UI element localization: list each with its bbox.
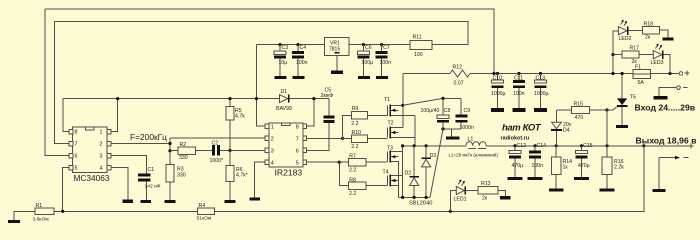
- transistor T3: [387, 152, 389, 162]
- svg-text:R18: R18: [644, 21, 654, 27]
- ground for R13: [500, 196, 511, 199]
- svg-text:1000*: 1000*: [210, 158, 224, 164]
- svg-text:7815: 7815: [329, 47, 340, 53]
- wire MC34063 pin1 to 15V rail: [111, 99, 118, 132]
- wire VR1 ground pin: [336, 56, 338, 71]
- LED LED3: [653, 51, 662, 59]
- wire source bus: [414, 115, 416, 146]
- resistor R3: [166, 165, 174, 183]
- wire node to IR2183 pin3: [230, 150, 265, 152]
- svg-text:R11: R11: [413, 35, 422, 41]
- resistor R7: [348, 159, 366, 166]
- svg-text:2к: 2к: [482, 195, 488, 201]
- wire R13 to ground: [498, 191, 505, 197]
- thyristor T5: [617, 98, 627, 105]
- svg-text:142 нФ: 142 нФ: [145, 183, 161, 189]
- svg-text:T5: T5: [630, 95, 636, 101]
- wire junction up to R9: [343, 115, 352, 138]
- svg-text:470µ: 470µ: [578, 163, 590, 169]
- LED LED2: [618, 27, 627, 35]
- svg-text:R8: R8: [349, 177, 356, 183]
- svg-text:C11: C11: [514, 75, 523, 81]
- node LO junction: [338, 161, 341, 164]
- node phase-D2: [413, 144, 416, 147]
- svg-text:1: 1: [271, 124, 274, 130]
- svg-text:T1: T1: [384, 97, 390, 103]
- output plus mark: [689, 145, 694, 147]
- ground for R1: [8, 220, 20, 223]
- node top-wire junction: [492, 72, 495, 75]
- svg-text:LED3: LED3: [651, 60, 664, 66]
- capacitor C14: [533, 144, 536, 147]
- node R5-rail: [228, 97, 231, 100]
- wire 15V rail: [63, 98, 329, 100]
- svg-text:100µ: 100µ: [362, 60, 374, 66]
- svg-text:radiokot.ru: radiokot.ru: [501, 136, 530, 142]
- wire C2 to node: [220, 150, 230, 152]
- ground for C14: [528, 177, 543, 180]
- resistor R18: [643, 27, 660, 34]
- wire R18 to ground: [659, 30, 668, 37]
- wire LED3 to rail: [663, 55, 670, 74]
- transistor T2: [387, 128, 389, 138]
- wire R6 to ground: [229, 182, 231, 200]
- ground for R3: [165, 200, 176, 203]
- wire R1 to R4: [54, 210, 198, 212]
- svg-text:1000n: 1000n: [460, 125, 475, 131]
- svg-text:Выход 18,96 в: Выход 18,96 в: [636, 136, 697, 146]
- svg-text:L1=28 мкГн (алюминий): L1=28 мкГн (алюминий): [449, 151, 499, 157]
- wire MC34063 pin2 to R2/R3 node: [111, 143, 170, 145]
- diode D2 (SBL2040 half): [413, 146, 415, 176]
- ground for R16: [600, 189, 615, 192]
- wire T2 drain: [391, 127, 403, 129]
- wire node down to rail: [606, 110, 608, 146]
- svg-text:C14: C14: [537, 143, 547, 149]
- wire R4 to output rail: [215, 146, 644, 212]
- wire rail to C5: [328, 99, 330, 116]
- wire diode anode rail: [399, 196, 430, 198]
- capacitor C8: [442, 98, 444, 115]
- inductor L1: [466, 142, 486, 146]
- svg-text:10µ: 10µ: [279, 60, 288, 66]
- wire MC34063 pin8 to 15V rail: [63, 99, 69, 132]
- svg-text:8: 8: [75, 130, 78, 136]
- resistor R8: [348, 182, 366, 189]
- svg-text:2к: 2к: [645, 35, 651, 41]
- svg-text:D2: D2: [405, 171, 412, 177]
- IC U1 pin stubs: [69, 129, 73, 134]
- svg-text:100n: 100n: [513, 91, 525, 97]
- svg-text:470µ: 470µ: [512, 163, 524, 169]
- wire C8/C9 bottom node: [443, 128, 461, 130]
- svg-text:C4: C4: [300, 45, 307, 51]
- capacitor C1: [138, 173, 150, 176]
- svg-text:LED1: LED1: [454, 197, 467, 203]
- svg-text:3,6кОм: 3,6кОм: [33, 217, 50, 223]
- svg-text:C13: C13: [536, 75, 546, 81]
- node C8 bottom: [441, 127, 444, 130]
- input plus terminal: [679, 72, 683, 76]
- svg-text:5: 5: [75, 166, 78, 172]
- resistor R2: [178, 147, 195, 154]
- node junction pin1-rail: [116, 97, 119, 100]
- resistor R17: [622, 51, 639, 58]
- svg-text:R4: R4: [199, 203, 206, 209]
- IC U2 pin stubs: [265, 124, 269, 129]
- wire R2/R3 junction verticals: [169, 138, 171, 164]
- svg-text:0.07: 0.07: [454, 80, 464, 86]
- wire phase rail: [403, 145, 467, 147]
- wire R17 row: [613, 54, 622, 56]
- svg-text:LED2: LED2: [619, 36, 632, 42]
- ground for C4: [293, 76, 305, 79]
- node T1 drain: [401, 104, 404, 107]
- capacitor C11: [517, 72, 520, 75]
- node LED3 tap: [668, 72, 671, 75]
- wire R15 to node: [589, 109, 607, 111]
- node D2 anode: [413, 196, 416, 199]
- svg-text:100µ/40: 100µ/40: [421, 108, 440, 114]
- capacitor C9: [460, 98, 462, 114]
- ground for R6: [225, 200, 236, 203]
- wire input bus down: [402, 74, 404, 128]
- svg-text:2: 2: [100, 142, 103, 148]
- svg-text:R13: R13: [481, 181, 491, 187]
- capacitor C3: [278, 43, 281, 46]
- svg-text:MC34063: MC34063: [74, 173, 110, 183]
- wire bootstrap node: [443, 97, 461, 99]
- resistor R4: [198, 208, 215, 215]
- svg-text:D4: D4: [563, 128, 570, 134]
- LED LED1: [456, 186, 464, 194]
- svg-text:C9: C9: [464, 108, 471, 114]
- node R17 tap: [611, 53, 614, 56]
- wire output rail: [486, 145, 689, 147]
- wire node to R6: [229, 151, 231, 166]
- wire VR1 rail: [257, 44, 325, 46]
- svg-text:100n: 100n: [380, 60, 392, 66]
- wire R9 to T1 gate: [368, 114, 388, 116]
- svg-text:R15: R15: [574, 101, 584, 107]
- svg-text:1000µ: 1000µ: [534, 91, 549, 97]
- wire IR2183 pin5 to junction: [307, 161, 340, 163]
- IC U2 IR2183 body: [269, 123, 303, 167]
- node VB junction: [312, 97, 315, 100]
- ground for input minus: [654, 96, 668, 99]
- svg-text:R1: R1: [36, 203, 43, 209]
- ground for output minus: [653, 189, 666, 192]
- capacitor C10: [496, 72, 499, 75]
- svg-text:T3: T3: [387, 146, 393, 152]
- node LED column rail: [611, 72, 614, 75]
- node HO junction: [341, 137, 344, 140]
- svg-text:4.7k: 4.7k: [235, 113, 245, 119]
- wire VR1 to 15V rail: [257, 45, 266, 126]
- svg-text:5: 5: [296, 160, 299, 166]
- svg-text:T2: T2: [388, 121, 394, 127]
- regulator VR1 7815 box: [325, 38, 350, 56]
- svg-text:330: 330: [177, 173, 186, 179]
- wire T3 source down: [391, 162, 399, 198]
- svg-text:BAV99: BAV99: [276, 106, 292, 112]
- wire LED1 anode: [450, 191, 456, 212]
- svg-text:C10: C10: [493, 75, 503, 81]
- svg-text:4: 4: [100, 166, 103, 172]
- svg-text:2.2: 2.2: [349, 191, 356, 197]
- svg-text:8: 8: [296, 124, 299, 130]
- wire input rail left: [403, 73, 450, 75]
- wire R5 to node: [229, 120, 231, 151]
- capacitor C12: [513, 144, 516, 147]
- svg-text:D3: D3: [430, 153, 437, 159]
- wire R3 to ground: [169, 182, 171, 200]
- node bootstrap: [441, 97, 444, 100]
- svg-text:VR1: VR1: [330, 40, 340, 46]
- wire top inner (R11 to MC34063 pin7): [55, 22, 469, 46]
- wire T4 drain bus to diode rail: [402, 176, 404, 198]
- resistor R5: [226, 107, 234, 120]
- wire R17 to LED3: [639, 54, 653, 56]
- ground for C13: [534, 108, 547, 112]
- resistor R10: [351, 135, 367, 142]
- svg-text:470: 470: [575, 115, 584, 121]
- svg-text:2мкФ: 2мкФ: [321, 93, 334, 99]
- svg-text:100: 100: [414, 52, 423, 58]
- svg-text:1: 1: [100, 130, 103, 136]
- wire R7 to T3 gate: [366, 161, 388, 163]
- svg-text:R17: R17: [630, 46, 640, 52]
- node phase-D3: [425, 144, 428, 147]
- wire F1 to plus terminal: [650, 73, 679, 75]
- wire LED2 to R18: [628, 30, 642, 32]
- ground for C1: [141, 200, 152, 203]
- svg-text:7: 7: [296, 136, 299, 142]
- ground for R14: [549, 189, 564, 192]
- capacitor C4: [296, 43, 299, 46]
- transistor T4: [387, 176, 389, 186]
- svg-text:3: 3: [100, 154, 103, 160]
- svg-text:C15: C15: [583, 143, 593, 149]
- wire junction down to R8: [339, 162, 348, 185]
- resistor R9: [351, 112, 367, 119]
- wire IR2183 pin8 to rail: [307, 99, 314, 126]
- zener diode D4: [555, 131, 557, 146]
- svg-text:C3: C3: [282, 45, 289, 51]
- svg-text:5A: 5A: [638, 80, 645, 86]
- resistor R6: [226, 166, 234, 182]
- wire C5 to IR2183 pin6: [307, 123, 330, 151]
- svg-text:1к: 1к: [563, 165, 569, 171]
- svg-text:6: 6: [75, 154, 78, 160]
- svg-text:3: 3: [271, 148, 274, 154]
- ground for C8/C9: [446, 136, 460, 139]
- svg-text:R7: R7: [349, 154, 356, 160]
- resistor R13: [478, 187, 498, 194]
- svg-text:D1: D1: [281, 89, 288, 95]
- ground for C7: [376, 76, 388, 79]
- svg-text:T4: T4: [383, 170, 389, 176]
- capacitor C5: [324, 115, 335, 118]
- input minus terminal: [677, 86, 681, 90]
- wire IR2183 pin7 to junction: [307, 137, 343, 139]
- wire R5 top: [229, 99, 231, 107]
- node feedback divider: [228, 149, 231, 152]
- svg-text:C8: C8: [444, 108, 451, 114]
- ground for C12: [508, 177, 523, 180]
- svg-text:C1: C1: [148, 167, 155, 173]
- wire MC34063 pin5 to bottom net: [63, 168, 69, 212]
- ground for C3: [275, 76, 287, 79]
- diode D3 (SBL2040 half): [425, 146, 427, 158]
- capacitor C7: [380, 43, 383, 46]
- node VR1-15V junction: [255, 97, 258, 100]
- svg-text:2.2: 2.2: [351, 121, 358, 127]
- wire input rail right: [470, 73, 633, 75]
- resistor R16: [605, 144, 608, 147]
- node pin2 junction: [168, 142, 171, 145]
- ground for IR2183 pin4: [249, 198, 260, 201]
- wire T1 drain to input bus: [391, 104, 403, 106]
- wire T4 drain: [391, 175, 403, 177]
- wire minus to ground: [658, 158, 660, 189]
- svg-text:IR2183: IR2183: [275, 167, 303, 177]
- svg-text:7: 7: [75, 142, 78, 148]
- svg-text:2: 2: [271, 136, 274, 142]
- wire T3 drain to phase bus: [391, 151, 403, 153]
- wire IR2183 pin4 to ground: [255, 162, 266, 197]
- svg-text:C7: C7: [383, 45, 390, 51]
- svg-text:R9: R9: [352, 106, 359, 112]
- wire R2 to C2: [195, 150, 212, 152]
- wire D4 to R15: [556, 109, 571, 111]
- resistor R14: [555, 144, 558, 147]
- svg-text:R10: R10: [352, 130, 362, 136]
- svg-text:1000µ: 1000µ: [491, 91, 506, 97]
- capacitor C2: [212, 145, 215, 155]
- capacitor C6: [362, 43, 365, 46]
- resistor R1: [35, 208, 54, 215]
- node pin5 junction: [61, 210, 64, 213]
- transistor T1: [387, 105, 389, 115]
- diode D1 BAV99: [280, 95, 288, 103]
- svg-text:330: 330: [179, 155, 188, 161]
- wire gate to T5: [607, 107, 617, 110]
- resistor R12 (zigzag): [450, 70, 470, 77]
- svg-text:2.2: 2.2: [351, 144, 358, 150]
- ground for C10: [491, 108, 504, 112]
- wire LED1 to R13: [466, 190, 478, 192]
- ground for C15: [574, 177, 589, 180]
- wire MC34063 pin4 to ground: [111, 168, 128, 200]
- capacitor C13: [539, 72, 542, 75]
- wire R10 to T2 gate: [368, 137, 388, 139]
- wire ground to R1: [14, 211, 35, 220]
- wire T1 source to source bus: [391, 114, 415, 116]
- wire R8 to T4 gate: [366, 185, 388, 187]
- wire MC34063 pin3 to C1: [111, 156, 146, 174]
- capacitor C15: [580, 144, 583, 147]
- svg-text:2.2k: 2.2k: [614, 165, 624, 171]
- svg-text:C2: C2: [212, 141, 219, 147]
- ground for C6: [358, 76, 370, 79]
- svg-text:C6: C6: [365, 45, 372, 51]
- node D3 anode: [425, 196, 428, 199]
- svg-text:R12: R12: [453, 65, 463, 71]
- wire T4 source: [391, 185, 399, 187]
- svg-text:F=200кГц: F=200кГц: [130, 132, 167, 142]
- ground for pin4: [123, 200, 134, 203]
- fuse F1: [633, 69, 650, 78]
- svg-text:Вход 24.....29в: Вход 24.....29в: [635, 102, 696, 112]
- diagonal wire C8 bottom to diode rail: [430, 129, 443, 197]
- resistor R15: [572, 107, 590, 114]
- diagonal wire T1 drain to bootstrap node: [403, 98, 443, 105]
- svg-text:ham КОТ: ham КОТ: [502, 123, 542, 134]
- wire top outer (input+ to MC34063 pin6): [45, 9, 494, 74]
- node LED1 tap: [449, 210, 452, 213]
- wire T2 source to source bus: [391, 137, 415, 139]
- wire IR2183 pin2 wire: [170, 137, 265, 139]
- resistor R11: [410, 41, 432, 50]
- IC U1 MC34063 body: [73, 127, 108, 172]
- svg-text:L1: L1: [468, 137, 474, 143]
- output minus wire: [659, 157, 676, 159]
- node feedback tap: [642, 144, 645, 147]
- node R2 junction: [168, 149, 171, 152]
- svg-text:R2: R2: [180, 142, 187, 148]
- wire to R2: [170, 150, 178, 152]
- ground for T5: [616, 125, 628, 128]
- svg-text:100n: 100n: [532, 163, 544, 169]
- svg-text:100n: 100n: [296, 60, 308, 66]
- node gate node: [605, 108, 608, 111]
- svg-text:F1: F1: [635, 65, 641, 71]
- ground for VR1: [331, 71, 343, 74]
- svg-text:C12: C12: [517, 143, 527, 149]
- ground for C11: [512, 108, 525, 112]
- wire phase bus down to T4 drain: [402, 146, 404, 176]
- node phase-bus: [401, 144, 404, 147]
- svg-text:4: 4: [271, 160, 274, 166]
- ground for R18: [663, 37, 674, 40]
- svg-text:2.2: 2.2: [349, 167, 356, 173]
- svg-text:4.7k*: 4.7k*: [236, 172, 248, 178]
- svg-text:2к: 2к: [632, 59, 638, 65]
- svg-text:51кОм: 51кОм: [197, 216, 212, 222]
- node T5 anode: [621, 72, 624, 75]
- svg-text:SBL2040: SBL2040: [409, 200, 432, 206]
- svg-text:6: 6: [296, 148, 299, 154]
- wire LED column: [613, 31, 618, 74]
